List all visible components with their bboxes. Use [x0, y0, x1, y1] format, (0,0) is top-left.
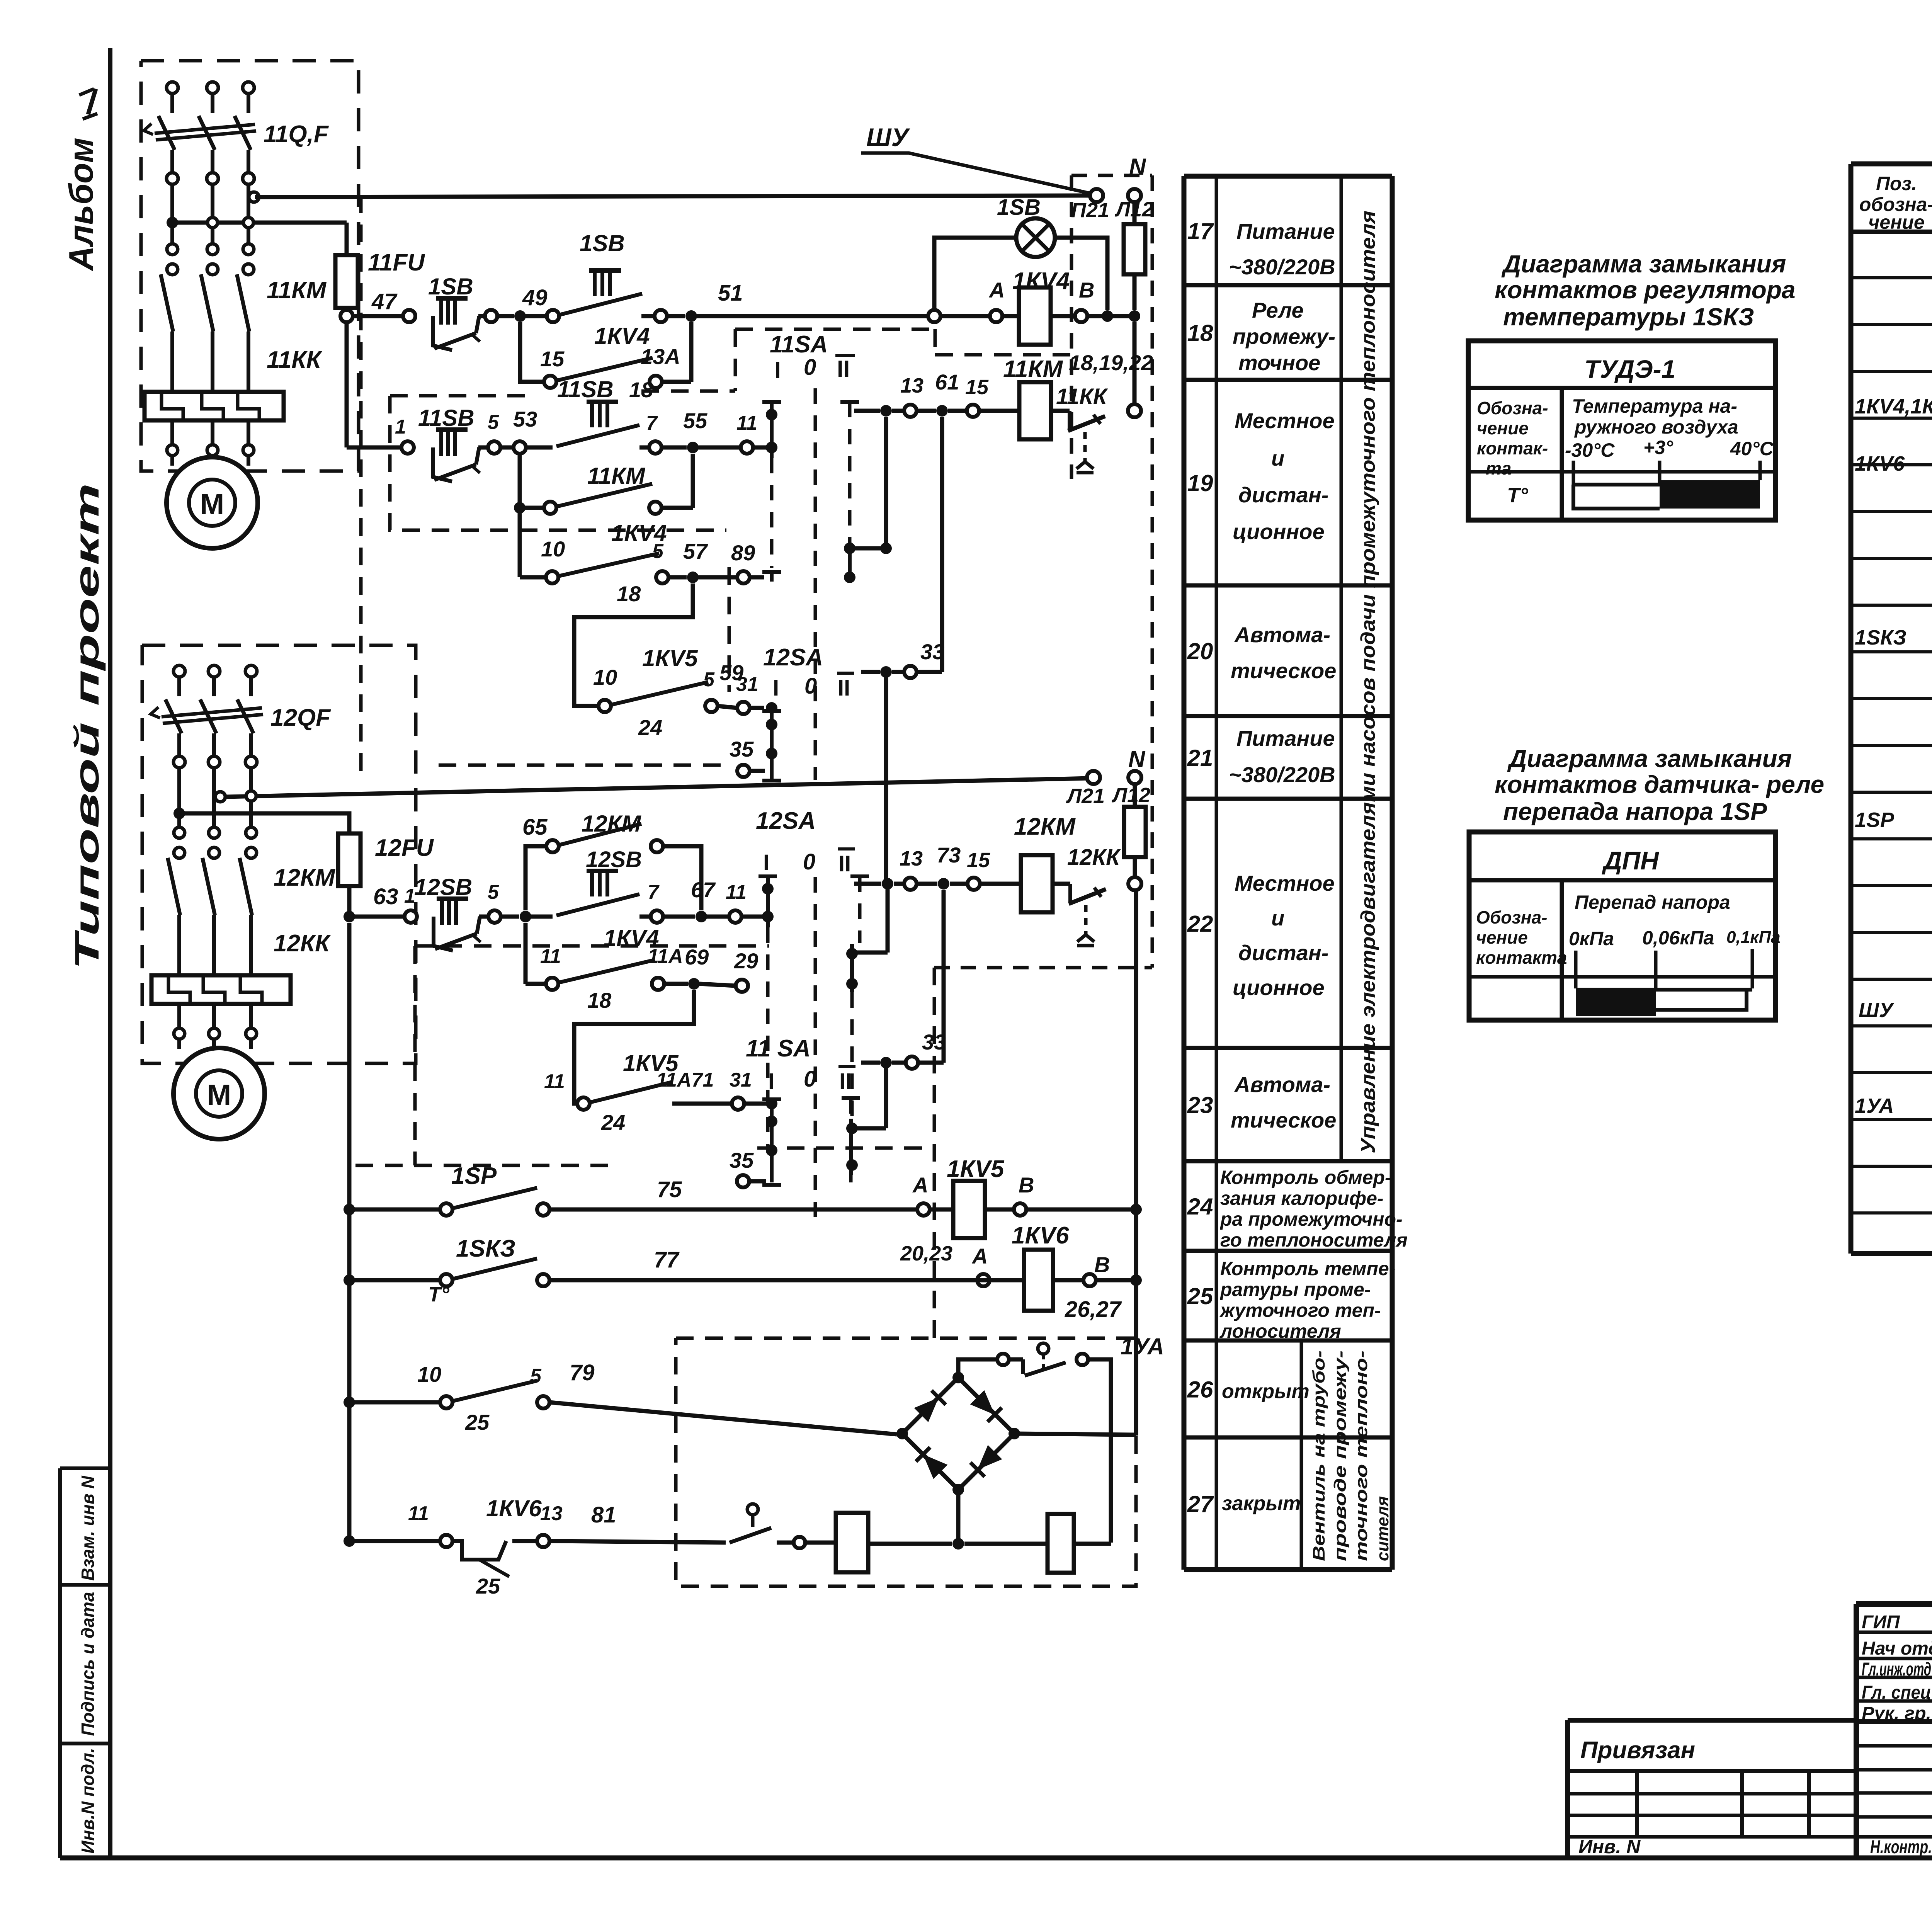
svg-text:81: 81	[591, 1502, 616, 1527]
wire bus to terminal Л21	[225, 778, 1090, 797]
svg-text:та: та	[1486, 458, 1511, 478]
svg-text:11КМ: 11КМ	[587, 463, 646, 489]
diagram 1 open span bar	[1573, 485, 1660, 509]
relay coil 1KV5	[930, 1208, 954, 1212]
svg-text:1КV4: 1КV4	[1012, 268, 1070, 294]
dashed boundary lower half bottom	[757, 1146, 923, 1150]
wires selector II to rung 18	[884, 417, 888, 548]
svg-text:25: 25	[465, 1410, 490, 1434]
svg-text:~380/220В: ~380/220В	[1229, 255, 1335, 279]
svg-text:35: 35	[730, 1148, 754, 1172]
svg-text:0: 0	[804, 674, 817, 699]
svg-text:22: 22	[1187, 911, 1213, 937]
svg-text:1SВ: 1SВ	[997, 195, 1041, 220]
thermal contact 12KK	[1053, 882, 1070, 886]
dashed enclosure box motor feeder 2	[142, 645, 416, 1063]
circuit breaker 12QF	[165, 699, 182, 733]
12SA column I lower	[759, 874, 777, 878]
svg-text:20: 20	[1187, 638, 1213, 664]
svg-text:25: 25	[1187, 1283, 1214, 1309]
svg-text:II: II	[837, 356, 850, 382]
svg-text:29: 29	[734, 949, 758, 973]
svg-text:Поз.: Поз.	[1876, 173, 1917, 194]
terminal A	[990, 310, 1002, 322]
svg-text:27: 27	[1187, 1491, 1214, 1517]
contact 11KM seal-in rung 20a	[518, 454, 522, 508]
node phase A tap to fuse bus	[167, 217, 178, 228]
svg-text:31: 31	[730, 1069, 752, 1091]
svg-text:26: 26	[1187, 1377, 1213, 1403]
svg-text:Л12: Л12	[1111, 784, 1150, 807]
svg-text:11 SА: 11 SА	[746, 1035, 811, 1062]
contactor coil 12KM	[1021, 855, 1053, 912]
svg-text:1УА: 1УА	[1855, 1094, 1894, 1118]
svg-text:Диаграмма замыкания: Диаграмма замыкания	[1501, 250, 1786, 278]
diode D3	[916, 1447, 947, 1479]
svg-text:1КV5: 1КV5	[642, 645, 698, 671]
svg-text:40°С: 40°С	[1730, 438, 1774, 459]
svg-text:А: А	[988, 278, 1005, 302]
svg-text:зания калорифе-: зания калорифе-	[1220, 1187, 1384, 1209]
fuse on neutral lower	[1133, 784, 1137, 807]
wire control bus to 11FU	[172, 221, 347, 225]
svg-text:Автома-: Автома-	[1234, 1072, 1330, 1097]
svg-text:5: 5	[488, 881, 499, 903]
svg-text:Перепад напора: Перепад напора	[1575, 891, 1730, 913]
valve contact 1YA branch	[958, 1359, 997, 1378]
rung 27 wire 81	[344, 1535, 355, 1547]
wire rung 22 down to column II lower	[886, 889, 890, 953]
svg-text:1SB: 1SB	[580, 230, 625, 256]
svg-text:точное: точное	[1238, 350, 1320, 375]
svg-text:18: 18	[587, 988, 612, 1012]
node phase A tap to fuse 12FU	[173, 808, 185, 819]
svg-text:1SР: 1SР	[1855, 808, 1895, 832]
svg-text:1КV5: 1КV5	[947, 1156, 1005, 1182]
break contact 1KV6 rung 27	[452, 1541, 506, 1560]
svg-text:чение: чение	[1476, 927, 1528, 947]
svg-text:11: 11	[736, 412, 757, 434]
function table column 3 divider	[1340, 176, 1343, 1161]
branch 12KM seal-in wire 65	[526, 846, 546, 910]
dashed corner near 12KK	[934, 966, 1152, 970]
svg-text:Обозна-: Обозна-	[1477, 398, 1548, 418]
svg-text:В: В	[1019, 1173, 1034, 1197]
contact 1KV5 rung 23b	[577, 1097, 590, 1110]
svg-text:0: 0	[804, 355, 816, 380]
svg-text:20,23: 20,23	[900, 1242, 952, 1265]
svg-text:18,19,22: 18,19,22	[1069, 350, 1153, 375]
svg-text:1SКЗ: 1SКЗ	[456, 1235, 515, 1262]
svg-text:17: 17	[1187, 218, 1214, 244]
svg-text:15: 15	[540, 347, 565, 371]
svg-text:0,06кПа: 0,06кПа	[1642, 927, 1714, 949]
terminal Л12 lower	[1128, 771, 1141, 784]
svg-text:12SВ: 12SВ	[586, 847, 642, 872]
svg-text:Контроль обмер-: Контроль обмер-	[1220, 1167, 1391, 1188]
svg-text:89: 89	[731, 541, 755, 565]
dashed boundary segment right of rung 18	[735, 328, 935, 331]
svg-text:В: В	[1094, 1252, 1110, 1277]
svg-text:ГИП: ГИП	[1862, 1612, 1900, 1633]
svg-text:I: I	[768, 1069, 774, 1094]
wire top bus to terminal П21	[255, 196, 1090, 197]
wire 51	[641, 314, 655, 318]
svg-text:11КМ: 11КМ	[267, 277, 327, 304]
function table frame	[1182, 176, 1187, 1570]
rung 24 differential pressure switch 1SP	[344, 1204, 355, 1215]
svg-text:сителя: сителя	[1373, 1496, 1392, 1561]
svg-text:13: 13	[540, 1502, 563, 1525]
svg-text:перепада напора 1SР: перепада напора 1SР	[1503, 798, 1767, 825]
svg-text:12FU: 12FU	[375, 835, 434, 861]
svg-text:Альбом: Альбом	[62, 138, 100, 271]
terminal П21	[1090, 189, 1103, 202]
terminal B	[1075, 310, 1087, 322]
svg-text:М: М	[207, 1078, 231, 1111]
contact circle 33 upper	[861, 670, 880, 674]
svg-text:1КV6: 1КV6	[1012, 1222, 1069, 1249]
rung 25 thermostat 1SK3	[344, 1274, 355, 1286]
svg-text:Гл.инж.отд: Гл.инж.отд	[1862, 1659, 1931, 1680]
terminal circle below 11FU wire 47	[340, 310, 353, 322]
svg-text:чение: чение	[1477, 418, 1529, 438]
node phase C tap to lamp bus	[249, 192, 259, 202]
svg-text:61: 61	[935, 370, 959, 394]
contact 1KV4 rung 23a	[524, 923, 528, 984]
svg-text:Местное: Местное	[1235, 871, 1335, 895]
svg-text:11КК: 11КК	[1056, 384, 1108, 409]
svg-text:Подпись и дата: Подпись и дата	[78, 1592, 98, 1736]
svg-text:и: и	[1271, 446, 1284, 470]
manual switch on rung 27	[747, 1504, 758, 1515]
svg-text:53: 53	[513, 407, 537, 431]
svg-text:Т°: Т°	[1507, 484, 1528, 507]
equipment table row lines	[1851, 276, 1932, 279]
svg-text:12КМ: 12КМ	[274, 864, 335, 891]
svg-text:контакта: контакта	[1476, 947, 1567, 968]
svg-text:тическое: тическое	[1231, 658, 1336, 683]
svg-text:Местное: Местное	[1235, 408, 1335, 433]
svg-text:13: 13	[900, 847, 923, 870]
svg-text:Питание: Питание	[1236, 726, 1335, 750]
svg-text:0,1кПа: 0,1кПа	[1726, 928, 1781, 947]
svg-text:-30°С: -30°С	[1565, 439, 1615, 461]
crossing circle феедер 2	[246, 791, 256, 801]
svg-text:точного теплоно-: точного теплоно-	[1352, 1351, 1371, 1561]
svg-text:Нач отд: Нач отд	[1862, 1638, 1932, 1659]
svg-text:промежу-: промежу-	[1233, 324, 1335, 349]
wire rung 17 to relay 1KV4	[697, 314, 928, 318]
svg-text:5: 5	[652, 540, 664, 563]
svg-text:ТУДЭ-1: ТУДЭ-1	[1584, 355, 1675, 383]
svg-text:12SВ: 12SВ	[414, 874, 472, 900]
left margin column boxes	[58, 1468, 62, 1858]
svg-text:Гл. спец: Гл. спец	[1862, 1682, 1931, 1703]
svg-text:0: 0	[803, 849, 815, 874]
svg-text:~380/220В: ~380/220В	[1229, 762, 1335, 787]
contact 1KV5 rung 20c	[599, 700, 611, 712]
svg-text:контактов регулятора: контактов регулятора	[1495, 276, 1796, 304]
svg-text:12QF: 12QF	[270, 704, 331, 731]
svg-text:Диаграмма замыкания: Диаграмма замыкания	[1507, 745, 1792, 772]
svg-text:5: 5	[530, 1365, 542, 1387]
svg-text:II: II	[838, 851, 851, 876]
seal-in contact 1KV4 15-13A	[520, 322, 544, 382]
svg-text:II: II	[839, 1069, 852, 1094]
12SA column 0 lower dashed	[814, 877, 817, 1217]
svg-text:11: 11	[540, 945, 561, 968]
svg-text:7: 7	[646, 412, 658, 434]
svg-text:II: II	[838, 675, 850, 701]
svg-text:Инв. N: Инв. N	[1578, 1836, 1641, 1857]
svg-text:А: А	[912, 1173, 928, 1197]
thermal relay 11KK heater box	[145, 392, 284, 420]
circuit breaker 11QF	[158, 116, 175, 150]
terminal Л12 upper	[1128, 189, 1141, 202]
contactor coil 11KM	[1019, 382, 1051, 439]
svg-text:Л21: Л21	[1066, 784, 1105, 808]
svg-text:ра промежуточно-: ра промежуточно-	[1219, 1208, 1403, 1230]
svg-text:Реле: Реле	[1252, 298, 1304, 322]
svg-text:жуточного теп-: жуточного теп-	[1219, 1300, 1381, 1321]
12SA column II lower	[850, 874, 869, 878]
rung 22 contactor 12KM coil circuit	[854, 882, 881, 886]
svg-text:ружного воздуха: ружного воздуха	[1574, 416, 1738, 438]
svg-text:12КМ: 12КМ	[582, 811, 642, 837]
svg-text:1КV4,1КV5,: 1КV4,1КV5,	[1855, 395, 1932, 418]
svg-text:Вентиль на трубо-: Вентиль на трубо-	[1310, 1351, 1328, 1561]
svg-text:Обозна-: Обозна-	[1476, 907, 1548, 927]
left bus vertical lower half	[347, 923, 352, 1539]
svg-text:I: I	[773, 675, 779, 701]
svg-text:Инв.N подл.: Инв.N подл.	[78, 1748, 98, 1853]
svg-text:температуры 1SКЗ: температуры 1SКЗ	[1503, 303, 1754, 331]
fuse on neutral Л12	[1133, 202, 1137, 224]
node phase tap to bus Л21 feeder 2	[215, 792, 225, 802]
svg-text:77: 77	[654, 1247, 680, 1272]
diagram 2 scale ticks	[1574, 951, 1578, 988]
svg-text:73: 73	[937, 843, 961, 867]
svg-text:11А: 11А	[648, 945, 683, 968]
diagram 1 table frame	[1468, 341, 1776, 520]
svg-text:5: 5	[488, 411, 499, 434]
wire bridge right to neutral bus	[1014, 1434, 1136, 1435]
crossing circle phase C	[243, 218, 253, 228]
wires 12KK to motor 2	[177, 1004, 181, 1028]
svg-text:35: 35	[730, 737, 754, 761]
svg-text:65: 65	[522, 815, 548, 840]
svg-text:67: 67	[691, 878, 716, 902]
svg-text:1SКЗ: 1SКЗ	[1855, 626, 1906, 649]
svg-text:Автома-: Автома-	[1234, 623, 1330, 647]
terminal circle 12KK to neutral	[1128, 877, 1141, 890]
breaker 12QF lower terminals	[173, 756, 185, 768]
contact circle 33 lower	[861, 1061, 880, 1065]
svg-text:11SВ: 11SВ	[418, 405, 474, 431]
svg-text:47: 47	[371, 289, 398, 314]
diagram 1 closed span black bar	[1660, 480, 1760, 509]
svg-text:Управление электродвигателями: Управление электродвигателями насосов по…	[1357, 211, 1379, 1153]
svg-text:проводе промежу-: проводе промежу-	[1331, 1351, 1350, 1561]
svg-text:24: 24	[638, 715, 662, 740]
fuse 11FU	[345, 223, 349, 248]
contact 1KV4 rung 20b	[518, 508, 522, 577]
solenoid winding close	[964, 1542, 1048, 1546]
11SA column 0 dashed	[814, 388, 817, 780]
11SA column II	[840, 400, 859, 404]
svg-text:ционное: ционное	[1233, 975, 1325, 1000]
svg-text:закрыт: закрыт	[1222, 1492, 1301, 1515]
title block signature rows	[1856, 1631, 1932, 1634]
svg-text:тическое: тическое	[1231, 1108, 1336, 1132]
contactor 12KM main contacts	[174, 827, 185, 838]
sheet frame bottom border	[60, 1856, 1932, 1861]
svg-text:11А71: 11А71	[656, 1069, 714, 1091]
wire 49 node	[497, 314, 514, 318]
relay coil 1KV6	[973, 1278, 1024, 1283]
svg-text:57: 57	[683, 539, 708, 563]
svg-text:10: 10	[417, 1362, 441, 1386]
diode D1	[914, 1390, 946, 1422]
svg-text:I: I	[774, 357, 781, 383]
diode D4	[970, 1445, 1002, 1477]
rung 22 wire to 12SB	[355, 915, 405, 919]
svg-text:11Q,F: 11Q,F	[264, 121, 329, 148]
svg-text:11: 11	[544, 1070, 565, 1093]
svg-text:Рук. гр.: Рук. гр.	[1862, 1703, 1931, 1724]
svg-text:69: 69	[685, 945, 709, 969]
svg-text:Контроль темпе-: Контроль темпе-	[1220, 1258, 1395, 1279]
dashed boundary lower group left	[415, 944, 769, 948]
svg-text:Температура на-: Температура на-	[1572, 395, 1737, 417]
svg-text:лоносителя: лоносителя	[1219, 1320, 1341, 1342]
11SA lower column II	[842, 1096, 860, 1100]
terminal 35 stub lower	[737, 1175, 749, 1187]
svg-text:1: 1	[404, 885, 415, 907]
svg-text:контак-: контак-	[1477, 438, 1548, 458]
svg-text:открыт: открыт	[1222, 1380, 1310, 1403]
svg-text:1SР: 1SР	[451, 1163, 497, 1189]
svg-text:11КМ: 11КМ	[1003, 356, 1063, 383]
motor M1	[167, 457, 258, 548]
dashed boundary around rung 19 group	[390, 396, 726, 530]
svg-text:чение: чение	[1868, 211, 1925, 233]
neutral bus vertical lower	[1134, 890, 1138, 1436]
supply terminals feeder 2	[173, 665, 185, 677]
svg-text:13: 13	[900, 374, 923, 397]
svg-text:15: 15	[965, 376, 989, 399]
wire vertical phase feed to rung 19	[345, 322, 349, 447]
svg-text:ционное: ционное	[1233, 519, 1325, 544]
svg-text:19: 19	[1187, 470, 1213, 496]
motor M2	[173, 1048, 265, 1139]
svg-text:11КК: 11КК	[267, 347, 322, 373]
svg-text:Взам. инв N: Взам. инв N	[78, 1475, 98, 1580]
fuse 12FU	[347, 827, 352, 893]
equipment table frame	[1851, 162, 1932, 167]
wires 11KK to motor 1	[170, 420, 174, 444]
node under bridge	[868, 1542, 952, 1546]
svg-text:А: А	[971, 1244, 988, 1268]
dashed vertical near wire 89	[728, 567, 731, 692]
thermal contact 11KK	[1051, 409, 1070, 413]
svg-text:5: 5	[703, 668, 715, 691]
svg-text:25: 25	[476, 1574, 500, 1598]
push button 12SB break contact	[434, 917, 453, 951]
svg-text:11: 11	[726, 881, 747, 903]
svg-text:55: 55	[683, 408, 707, 433]
svg-text:12SА: 12SА	[763, 644, 823, 671]
svg-text:11SВ: 11SВ	[557, 376, 614, 402]
svg-text:дистан-: дистан-	[1238, 941, 1328, 965]
node wire 17 right	[1087, 314, 1134, 318]
dashed enclosure N column upper	[1071, 174, 1152, 177]
svg-text:Питание: Питание	[1236, 219, 1335, 243]
rung 26 contact 1KV6 wire 79	[344, 1397, 355, 1408]
svg-text:1КV6: 1КV6	[486, 1495, 542, 1521]
terminal circle 11KK to neutral	[1128, 404, 1141, 417]
wire neutral down to 11KK	[1133, 322, 1137, 405]
svg-text:Т°: Т°	[428, 1283, 449, 1306]
breaker poles lower terminals	[167, 173, 178, 184]
11SA lower column I	[762, 1097, 781, 1101]
title block outer	[1856, 1601, 1932, 1607]
svg-text:12КК: 12КК	[274, 930, 331, 957]
node 5 rung 22	[501, 915, 519, 919]
svg-text:П21: П21	[1071, 199, 1109, 222]
svg-text:7: 7	[648, 881, 660, 903]
push button 1SB make contact	[547, 310, 559, 322]
svg-text:Привязан: Привязан	[1580, 1737, 1695, 1764]
wire control bus to 12FU	[179, 813, 349, 827]
svg-text:51: 51	[718, 281, 743, 306]
svg-text:0кПа: 0кПа	[1569, 928, 1614, 949]
svg-text:49: 49	[522, 285, 548, 310]
crossing circle phase B	[207, 218, 218, 228]
wire rung 17 start	[353, 314, 403, 318]
sheet frame left border	[108, 48, 112, 1858]
svg-text:10: 10	[541, 537, 565, 561]
svg-text:63: 63	[373, 884, 398, 909]
svg-text:1КV6: 1КV6	[1855, 452, 1905, 475]
wire 33 down to rung 22	[884, 677, 888, 884]
svg-text:и: и	[1271, 906, 1284, 930]
svg-text:23: 23	[1187, 1092, 1213, 1118]
dashed enclosure box motor feeder 1	[141, 61, 359, 471]
svg-text:ДПН: ДПН	[1602, 846, 1659, 875]
svg-text:26,27: 26,27	[1065, 1297, 1122, 1322]
svg-text:Типовой проект: Типовой проект	[68, 483, 106, 970]
11SA column I	[762, 400, 781, 404]
svg-text:24: 24	[1187, 1194, 1213, 1220]
svg-text:21: 21	[1187, 745, 1213, 771]
svg-text:12SА: 12SА	[756, 808, 816, 834]
relay coil 1KV4	[1002, 314, 1019, 318]
svg-text:12КК: 12КК	[1067, 845, 1121, 870]
svg-text:18: 18	[617, 582, 641, 606]
thermal relay 12KK heater box	[151, 975, 291, 1004]
diagram 2 open span bar	[1656, 988, 1752, 992]
svg-text:11FU: 11FU	[368, 249, 425, 276]
solenoid winding open	[805, 1541, 836, 1545]
svg-text:ШУ: ШУ	[1859, 998, 1895, 1022]
svg-text:1: 1	[395, 416, 406, 438]
terminal 35 stub	[737, 765, 750, 777]
svg-text:го теплоносителя: го теплоносителя	[1220, 1229, 1408, 1251]
svg-text:12КМ: 12КМ	[1014, 813, 1076, 840]
push button 11SB make contact on rung 19	[526, 446, 553, 450]
